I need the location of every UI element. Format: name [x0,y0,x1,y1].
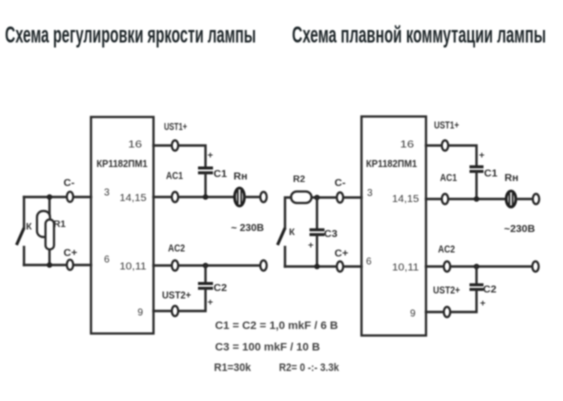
label Rn left [234,171,248,183]
svg-text:+: + [480,298,486,309]
lamp Rn right [506,191,516,207]
svg-text:КР1182ПМ1: КР1182ПМ1 [97,158,148,170]
capacitor C2 right polarity + [480,298,486,309]
label C2 right [483,284,497,296]
pin 10,11 right box [392,263,419,274]
wire left vertical lower right circuit [284,247,286,267]
wire pin14,15 net to lamp [154,196,234,198]
svg-text:C1: C1 [484,168,498,180]
wire pin3 net (top left) [24,196,91,198]
label Rn right [505,172,519,184]
wire left vertical lower [23,247,25,265]
svg-text:UST1+: UST1+ [164,121,187,133]
wire left vertical upper [23,197,25,228]
svg-text:14,15: 14,15 [120,193,147,204]
svg-text:6: 6 [366,257,372,268]
svg-text:КР1182ПМ1: КР1182ПМ1 [366,158,417,170]
svg-text:14,15: 14,15 [392,194,419,205]
pin 10,11 [120,262,147,273]
terminal UST2 circle [172,306,178,316]
terminal AC1 output circle right [533,194,539,204]
pin 6 [104,255,110,266]
resistor R2 body [291,192,312,204]
svg-text:C1 = C2 = 1,0 mkF / 6 В: C1 = C2 = 1,0 mkF / 6 В [215,320,338,332]
svg-text:C1: C1 [214,168,228,180]
node R1 bottom junction [47,262,53,268]
wire pin3 net right (top) [313,196,362,198]
capacitor C3 polarity + [308,240,314,251]
label C- right [335,177,347,189]
svg-text:6: 6 [104,255,110,266]
label C- [64,177,76,189]
svg-text:Схема плавной коммутации лампы: Схема плавной коммутации лампы [292,22,546,48]
svg-text:10,11: 10,11 [120,262,147,273]
svg-text:+: + [208,297,214,308]
pin 9 [138,308,144,319]
terminal AC1 circle right [442,194,448,204]
op-amp U1 (IC KP1182PM1 left box) [91,117,154,334]
pin 14,15 [120,193,147,204]
switch K blade right [278,228,286,245]
node C3 bottom junction [314,264,320,270]
pin 16 [128,140,143,151]
node C2 junction right [474,264,480,270]
svg-text:К: К [289,227,295,238]
label C3 [324,228,338,240]
svg-text:AC1: AC1 [440,172,457,184]
wire pin16 to UST1 corner [154,146,206,167]
node C2 junction on 10,11 [203,263,209,269]
terminal UST1 circle right [442,140,448,150]
switch K label [26,222,32,233]
label AC1 [166,170,183,182]
op-amp U2 (IC KP1182PM1 right box) [362,117,427,336]
terminal C+ circle [67,260,73,270]
terminal AC1 circle [172,192,178,202]
svg-text:C2: C2 [214,282,228,294]
label UST2+ right [433,285,460,297]
lamp Rn left [235,188,245,206]
label UST2+ [162,290,191,302]
svg-text:+: + [479,150,485,161]
node C1 junction on 14,15 [203,194,209,200]
wire C2 bottom to pin9 right [426,291,477,312]
svg-text:R1: R1 [54,219,67,230]
label AC1 right [440,172,457,184]
pin 9 right box [410,309,416,320]
wire C1 bottom to pin14,15 net [204,174,206,197]
svg-text:С-: С- [64,177,76,189]
svg-text:R1=30k: R1=30k [214,362,252,374]
svg-text:10,11: 10,11 [392,263,419,274]
capacitor C1 right polarity + [479,150,485,161]
wire C2 bottom to pin9 net [154,290,206,311]
capacitor C2 polarity + [208,297,214,308]
wire C2 top right [475,267,477,283]
label C+ [64,247,78,259]
U1 label КР1182ПМ1 [97,158,148,170]
value label C3 = 100 mkF / 10 V [215,342,320,354]
svg-text:+: + [208,150,214,161]
label UST1+ right [434,120,459,132]
terminal AC2 circle [172,260,178,270]
svg-text:9: 9 [410,309,416,320]
wire C2 top [204,266,206,282]
resistor R1 branch wire [48,197,50,265]
pin 14,15 right box [392,194,419,205]
node R1 top junction [47,194,53,200]
terminal UST2 circle right [444,307,450,317]
label UST1+ [164,121,187,133]
terminal AC1 output circle [260,192,266,202]
wire pin6 net right (bottom) [285,265,362,267]
svg-text:~ 230В: ~ 230В [231,222,264,234]
svg-text:C3 = 100 mkF / 10 В: C3 = 100 mkF / 10 В [215,342,320,354]
svg-text:~230В: ~230В [504,223,535,235]
wire C3 bottom [316,236,318,267]
capacitor C2 right plates [470,285,484,290]
svg-text:UST2+: UST2+ [433,285,460,297]
pin 6 right box [366,257,372,268]
label ~230V right [504,223,535,235]
switch K blade [17,228,25,245]
svg-text:C2: C2 [483,284,497,296]
value label C1 = C2 = 1,0 mkF / 6 V [215,320,338,332]
capacitor C1 plates [198,168,213,173]
label AC2 right [438,244,455,256]
label C1 right [484,168,498,180]
capacitor C3 plates [310,230,325,235]
wire C1 bottom to 14,15 right [475,173,477,200]
terminal AC2 output circle right [532,261,538,271]
wire pin6 net (bottom left) [24,264,91,266]
svg-text:+: + [308,240,314,251]
wire C3 top [316,198,318,228]
svg-text:С+: С+ [64,247,78,259]
svg-text:К: К [26,222,32,233]
svg-text:C3: C3 [324,228,338,240]
terminal AC2 circle right [444,261,450,271]
resistor R1 body [37,211,54,250]
terminal AC2 output circle [260,260,266,270]
svg-text:R2: R2 [293,174,305,185]
wire R2 left to corner [285,198,291,229]
resistor R2 label [293,174,305,185]
terminal C- circle right [337,192,343,202]
capacitor C2 plates [198,284,213,289]
svg-text:С+: С+ [335,248,349,260]
resistor R1 label [54,219,67,230]
value label R1=30k [214,362,252,374]
svg-text:9: 9 [138,308,144,319]
svg-text:Rн: Rн [505,172,519,184]
svg-text:AC2: AC2 [438,244,455,256]
svg-text:UST2+: UST2+ [162,290,191,302]
svg-text:16: 16 [128,140,143,151]
svg-text:3: 3 [104,188,110,199]
pin 3 [104,188,110,199]
wire lamp to right terminal [245,196,260,198]
U2 label КР1182ПМ1 [366,158,417,170]
wire pin14,15 net right [426,198,505,200]
svg-text:UST1+: UST1+ [434,120,459,132]
terminal C+ circle right [337,261,343,271]
svg-text:R2= 0 -:- 3.3k: R2= 0 -:- 3.3k [279,362,340,374]
label ~230V left [231,222,264,234]
capacitor C1 right plates [470,167,484,172]
wire pin10,11 net right [426,265,532,267]
value label R2= 0 -:- 3.3k [279,362,340,374]
label C2 [214,282,228,294]
terminal C- circle [67,192,73,202]
wire lamp to terminal right [517,198,533,200]
terminal UST1 circle [172,140,178,150]
svg-text:Rн: Rн [234,171,248,183]
node R2-C3 junction [314,195,320,201]
svg-text:3: 3 [367,188,373,199]
svg-text:AC1: AC1 [166,170,183,182]
svg-text:16: 16 [400,140,415,151]
label C+ right [335,248,349,260]
label AC2 [168,243,185,255]
capacitor C1 polarity + [208,150,214,161]
svg-text:AC2: AC2 [168,243,185,255]
label C1 [214,168,228,180]
pin 16 right box [400,140,415,151]
node C1 junction right [474,196,480,202]
switch K label right [289,227,295,238]
svg-text:Схема регулировки яркости ламп: Схема регулировки яркости лампы [5,22,256,48]
svg-text:С-: С- [335,177,347,189]
wire pin16 to UST1 corner right [426,146,477,165]
pin 3 right box [367,188,373,199]
wire pin10,11 net [154,264,261,266]
